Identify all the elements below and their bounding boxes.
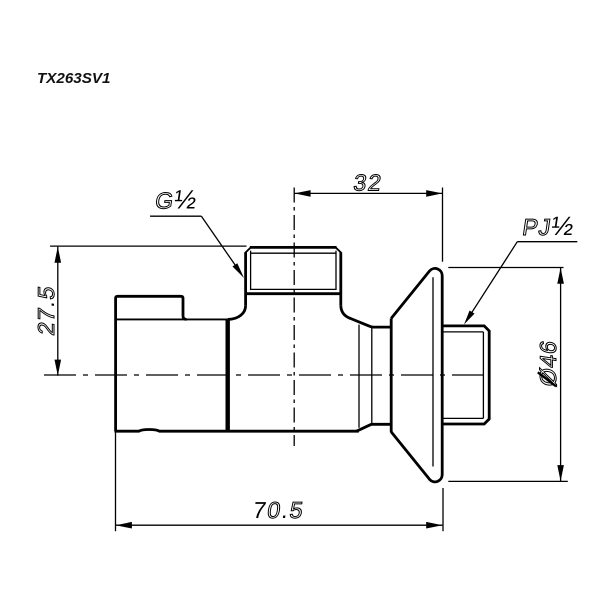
dimension 70.5 arrow right <box>426 522 442 529</box>
outlet port G1/2 outer <box>246 247 341 305</box>
valve body bottom line <box>115 429 359 431</box>
valve handle ridge <box>116 296 187 431</box>
dimension 32 text <box>352 169 385 195</box>
dimension 27.5 line <box>57 247 59 376</box>
centerline horizontal axis <box>44 374 491 376</box>
valve bonnet top line <box>116 318 228 320</box>
flange rim inner line <box>432 277 434 466</box>
dimension 70.5 extension line left <box>115 432 117 531</box>
body right fillet and neck top <box>341 306 391 327</box>
centerline vertical outlet axis <box>293 188 295 447</box>
svg-text:27.5: 27.5 <box>33 283 59 337</box>
inlet pipe thread inner lines <box>442 332 483 419</box>
flange cone outline <box>391 268 442 481</box>
dimension 27.5 extension line top <box>50 245 246 247</box>
dimension 32 arrow left <box>294 190 310 197</box>
label PJ1/2 text <box>521 211 577 241</box>
body left fillet to outlet port <box>228 306 246 320</box>
svg-text:32: 32 <box>352 169 385 195</box>
svg-text:PJ½: PJ½ <box>521 211 577 241</box>
label G1/2 text <box>153 185 199 215</box>
outlet port chamfers <box>245 247 341 252</box>
label PJ1/2 arrowhead <box>464 311 475 325</box>
dimension O46 line <box>560 268 562 482</box>
dimension O46 text <box>535 338 561 388</box>
dimension O46 extension line top <box>448 267 563 269</box>
outlet port shoulder <box>245 292 341 295</box>
dimension 27.5 arrow top <box>55 247 62 263</box>
flange back edge <box>390 318 393 432</box>
title TX263SV1 <box>37 70 110 87</box>
dimension 32 line <box>294 192 442 194</box>
label PJ1/2 underline <box>517 241 577 243</box>
outlet port thread inner lines <box>251 251 336 290</box>
dimension 32 arrow right <box>426 190 442 197</box>
dimension 70.5 arrow left <box>116 522 132 529</box>
dimension 32 extension line right <box>442 188 444 262</box>
label G1/2 arrowhead <box>233 263 245 278</box>
body left edge <box>225 319 229 431</box>
dimension 27.5 arrow bottom <box>55 360 62 376</box>
dimension O46 arrow top <box>557 268 564 284</box>
tangent line left <box>358 325 360 428</box>
label G1/2 leader <box>201 216 236 266</box>
dimension 27.5 text <box>33 283 59 337</box>
dimension O46 arrow bottom <box>557 465 564 481</box>
dimension 70.5 line <box>116 524 442 526</box>
dimension 70.5 text <box>251 497 306 523</box>
svg-text:70.5: 70.5 <box>251 497 306 523</box>
label PJ1/2 leader <box>470 242 517 316</box>
label G1/2 underline <box>150 215 201 217</box>
dimension 70.5 extension line right <box>442 488 444 531</box>
inlet pipe PJ1/2 outer <box>442 326 489 424</box>
svg-text:G½: G½ <box>153 185 199 215</box>
tangent line right <box>371 327 373 424</box>
dimension O46 extension line bottom <box>448 480 568 482</box>
svg-text:TX263SV1: TX263SV1 <box>37 70 110 87</box>
neck bottom diagonal <box>357 424 392 431</box>
